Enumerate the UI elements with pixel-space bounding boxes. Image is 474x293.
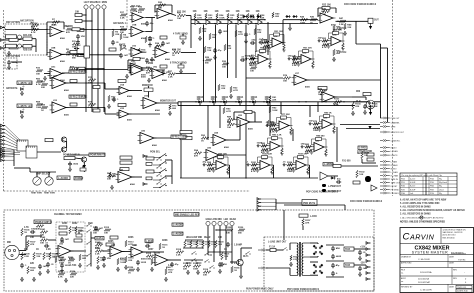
connector OUT J (380, 192, 399, 195)
svg-text:L-MAIN: L-MAIN (391, 160, 398, 163)
op-amp U2A (48, 27, 65, 37)
svg-text:100K: 100K (146, 259, 152, 261)
svg-text:DATE: DATE (449, 285, 455, 288)
jack LED HIGH (206, 221, 210, 225)
svg-text:4.7K: 4.7K (58, 276, 63, 279)
svg-text:4560: 4560 (130, 183, 136, 186)
resistor R95 (302, 219, 304, 226)
svg-text:33K: 33K (107, 179, 111, 181)
capacitor C34 (240, 58, 245, 62)
resistor RT5 (237, 13, 239, 19)
node bus326 (325, 101, 326, 102)
node y29 x47 (46, 29, 47, 30)
wire T1 primary bot (289, 268, 291, 275)
connector AC IN 1 (258, 249, 268, 251)
transistor Q8 (237, 259, 243, 265)
svg-text:R141: R141 (40, 228, 46, 231)
svg-text:2.2K: 2.2K (88, 107, 93, 109)
capacitor C42 (136, 260, 140, 265)
resistor R103 (104, 229, 111, 232)
capacitor C18 (331, 271, 335, 276)
node bus240 (239, 19, 240, 20)
resistor R123 (333, 165, 341, 168)
wire bb sw to level (91, 237, 95, 239)
wire fuse (270, 249, 283, 251)
svg-text:4560: 4560 (141, 257, 147, 260)
resistor R90 (202, 240, 204, 248)
wire fan 1 (5, 126, 20, 141)
svg-text:100K: 100K (313, 130, 319, 132)
wire VR tops (30, 171, 56, 173)
svg-text:PAD: PAD (88, 222, 93, 225)
svg-text:4560: 4560 (140, 57, 146, 60)
svg-text:U9b: U9b (153, 66, 158, 68)
svg-text:R112: R112 (104, 227, 110, 229)
svg-text:R-MAIN: R-MAIN (391, 164, 398, 167)
wire x270 drop (269, 102, 271, 137)
connector P2 pin 8 (1, 150, 6, 153)
ground R173 (116, 267, 120, 271)
node bb2 (102, 250, 103, 251)
wire U1 join (151, 18, 153, 32)
ground D2 (20, 114, 24, 118)
wire U15 in (104, 108, 106, 115)
resistor R140 (199, 27, 201, 34)
svg-text:CARVIN: CARVIN (403, 232, 435, 243)
resistor R36 (333, 49, 335, 56)
svg-text:ASSY: ASSY (401, 277, 407, 280)
resistor R71 (27, 240, 29, 248)
switch SW1 (156, 157, 161, 160)
node mid (210, 254, 211, 255)
transistor QT2 (206, 20, 210, 25)
node bb1 (90, 250, 91, 251)
diode DB1 (197, 100, 202, 103)
wire jack bus2 (82, 20, 92, 22)
svg-text:47K: 47K (66, 31, 70, 34)
svg-text:15K: 15K (283, 81, 287, 83)
label box L AUDIO 5 (172, 232, 183, 235)
switch SW14 (209, 265, 214, 268)
svg-text:15K: 15K (207, 50, 211, 52)
svg-text:MON: MON (102, 2, 108, 4)
wire R2B join (32, 45, 36, 47)
wire fan 7 (5, 148, 20, 151)
wire in bus (25, 236, 27, 251)
svg-text:10K: 10K (40, 243, 44, 245)
jack LED LOW (212, 221, 216, 225)
diode DT5 (292, 15, 297, 18)
wire drop x220 (219, 106, 221, 128)
resistor R177 (226, 229, 233, 232)
svg-text:F1 2A: F1 2A (269, 245, 276, 248)
diode D13 (318, 250, 324, 256)
wire sw bus2 (171, 160, 173, 184)
resistor R10b (70, 67, 77, 70)
node R34 (344, 21, 345, 22)
svg-text:1K: 1K (41, 110, 44, 112)
svg-text:Rly: Rly (439, 193, 442, 195)
svg-text:4560: 4560 (166, 266, 172, 269)
capacitor C9 (250, 57, 255, 61)
svg-text:U100: U100 (218, 159, 224, 161)
svg-text:FX RET: FX RET (391, 186, 399, 188)
svg-text:47K: 47K (168, 271, 172, 274)
svg-text:PWR MUTE: PWR MUTE (303, 203, 316, 205)
svg-text:33K: 33K (100, 260, 104, 262)
node DB5 (249, 101, 250, 102)
wire top bus join (190, 20, 192, 24)
node bus253 (252, 101, 253, 102)
node drop220 (219, 105, 220, 106)
resistor R85 (97, 256, 99, 264)
svg-text:10K: 10K (215, 11, 220, 13)
svg-text:10/25: 10/25 (245, 55, 251, 57)
resistor R145 (254, 28, 256, 35)
op-amp U17 (292, 75, 310, 85)
wire elbow h48 (381, 47, 388, 49)
op-amp U35 (129, 247, 146, 257)
op-amp U11 (129, 65, 146, 75)
svg-text:R206: R206 (128, 237, 134, 239)
svg-text:15K: 15K (264, 42, 268, 44)
wire jack MON down (103, 9, 105, 112)
connector P4 pin 3 (257, 205, 262, 208)
node T7 (257, 19, 258, 20)
potentiometer P1a (18, 35, 22, 39)
wire reg out 2 (354, 264, 366, 266)
ground C44 (148, 43, 152, 47)
channel filter dashed box (4, 210, 374, 291)
svg-text:LED: LED (224, 219, 229, 221)
resistor R143 (224, 44, 226, 51)
svg-text:33K: 33K (120, 32, 124, 34)
node jack LEFT y29 (85, 29, 86, 30)
svg-text:no.: no. (401, 272, 404, 274)
svg-text:10K: 10K (250, 71, 254, 73)
svg-text:POWER: POWER (75, 178, 84, 180)
potentiometer VR5 (80, 166, 86, 172)
svg-text:100K: 100K (120, 262, 126, 264)
node x246 y178 (245, 177, 246, 178)
wire mid bus y101.5 (178, 101, 381, 103)
svg-text:4560: 4560 (120, 257, 126, 260)
capacitor C22 (30, 230, 35, 234)
wire U4 fb right (335, 8, 337, 13)
jack J6 output (368, 18, 373, 26)
svg-text:R51 10K: R51 10K (274, 31, 283, 33)
resistor R47 fb (118, 104, 126, 107)
wire U26 out (154, 137, 171, 139)
wire feed psu drop (344, 205, 346, 210)
fuse F1 (270, 248, 276, 251)
connector PGM OUT (380, 117, 400, 120)
DSP option 2 dashed box (5, 58, 17, 69)
switch SW13 (86, 223, 91, 226)
wire XLR IN out2 (19, 254, 26, 256)
svg-text:8-chnl: 8-chnl (410, 186, 416, 188)
wire U9 out (181, 52, 196, 54)
ground XLR arrow (369, 112, 372, 115)
svg-text:47K: 47K (138, 11, 142, 14)
node v92 y83 (91, 82, 92, 83)
svg-text:22K: 22K (257, 32, 261, 34)
wire U4 down (387, 48, 389, 122)
wire U11 out (154, 69, 165, 71)
svg-text:R207: R207 (148, 249, 154, 251)
svg-text:10/25: 10/25 (257, 142, 263, 144)
svg-text:R32 10K: R32 10K (322, 5, 331, 7)
connector P4 pin 4 (257, 209, 262, 212)
wire sw col (90, 232, 92, 266)
switch lever 3 (160, 169, 166, 173)
resistor R5A (130, 8, 137, 11)
svg-text:10K: 10K (226, 11, 231, 13)
ground comb (229, 94, 233, 98)
svg-text:D2-D4225A: D2-D4225A (418, 278, 429, 281)
svg-text:U2C: U2C (51, 66, 56, 68)
resistor R45 (88, 103, 96, 106)
connector PSU pin 1 (366, 242, 371, 245)
wire U2B out (80, 54, 121, 56)
transistor QT1 (195, 20, 199, 25)
svg-text:10K: 10K (227, 48, 231, 50)
op-amp U27 (116, 172, 135, 183)
svg-text:FAX 487-8160: FAX 487-8160 (443, 236, 455, 239)
svg-text:4 PATCH: 4 PATCH (337, 27, 347, 30)
wire bridge2 top (310, 261, 318, 263)
connector PSU pin 6 (366, 272, 371, 275)
ground R121 (351, 111, 355, 115)
svg-text:L+AUDIO: L+AUDIO (173, 233, 183, 236)
op-amp U25 (204, 150, 222, 161)
jack J2 LEFT (84, 5, 88, 9)
wire bb join2 (216, 229, 226, 231)
capacitor C12 (44, 244, 49, 248)
resistor R2B (23, 45, 32, 48)
connector OUT A (380, 160, 398, 163)
node v98 y107 (97, 107, 98, 108)
svg-text:22K: 22K (115, 34, 119, 36)
connector P2 pin 1 (1, 124, 6, 127)
resistor R84 (95, 250, 103, 253)
LED D1 (21, 86, 25, 91)
op-amp U15 (117, 110, 132, 118)
capacitor C6b (161, 70, 165, 75)
resistor R176 (208, 240, 210, 248)
wire U2C in (44, 73, 50, 75)
switch pole 5a (159, 187, 160, 188)
node v86 y83 (85, 82, 86, 83)
ground reg2 (358, 272, 362, 276)
wire bottom feed long (153, 251, 155, 253)
svg-text:22K: 22K (128, 260, 132, 262)
op-amp U2C (48, 69, 65, 79)
XLR pin 3 (370, 106, 372, 108)
svg-text:R133: R133 (334, 99, 340, 101)
resistor R102 (93, 229, 100, 232)
resistor R79 (69, 226, 71, 234)
resistor R66 (367, 158, 374, 161)
resistor R170 (55, 256, 57, 263)
svg-text:R80 1K: R80 1K (324, 113, 332, 115)
switch lever 5 (160, 184, 166, 188)
ground C21 (38, 271, 42, 275)
svg-text:AUX: AUX (96, 1, 101, 4)
svg-text:4560: 4560 (165, 58, 171, 61)
label box L AUDIO 3 (57, 176, 70, 180)
box REVERB (6, 35, 17, 39)
regulator VR7 (344, 247, 354, 251)
wire mid bus lower (178, 105, 355, 107)
svg-text:R101: R101 (251, 162, 257, 164)
wire R30b gnd (289, 24, 291, 27)
wire U1C fb left (127, 60, 129, 70)
resistor R3 (31, 24, 39, 27)
op-amp U26 (138, 133, 157, 144)
wire U24 link (226, 139, 240, 141)
pin S2-2 (28, 146, 30, 148)
svg-text:R104: R104 (287, 161, 293, 164)
resistor R6b (77, 28, 84, 31)
node T1 (194, 19, 195, 20)
transistor QT7 (258, 20, 262, 25)
svg-text:10K: 10K (359, 174, 363, 176)
svg-text:R126: R126 (128, 267, 134, 269)
op-amp U34 (108, 247, 125, 257)
wire x281 drop (280, 102, 282, 115)
svg-text:1K: 1K (36, 249, 39, 251)
pin S2-3 (30, 146, 32, 148)
connector AUX L (380, 150, 398, 153)
ground U33 (60, 269, 64, 273)
node jack1 (85, 14, 86, 15)
wire U2C out (62, 72, 72, 74)
wire VR feed (29, 168, 31, 172)
diode D16 (312, 269, 318, 275)
resistor R27 (146, 69, 154, 72)
svg-text:TAPE IN: TAPE IN (391, 178, 399, 181)
wire fan 8 (5, 151, 20, 152)
resistor R87 (184, 240, 186, 248)
wire caps rail mid (326, 260, 344, 262)
node T2 (205, 19, 206, 20)
resistor R19 fb (133, 58, 140, 61)
switch pole 2a (159, 164, 160, 165)
resistor R8 (66, 51, 73, 54)
ground midleft (107, 104, 111, 108)
svg-text:APPROVED: APPROVED (401, 262, 412, 265)
ground R85 (96, 265, 100, 269)
svg-text:22K: 22K (70, 277, 74, 279)
svg-text:47K: 47K (194, 155, 198, 158)
resistor R76 (40, 239, 48, 242)
resistor R171 (58, 273, 65, 276)
svg-text:OUT: OUT (374, 20, 379, 22)
svg-text:MID ENABLE LED REV: MID ENABLE LED REV (175, 213, 200, 216)
potentiometer VR3 (33, 177, 41, 185)
node jack MON y69 (103, 69, 104, 70)
label box L AUDIO 4 (172, 223, 183, 226)
svg-text:MIC: MIC (7, 242, 11, 244)
wire U23 fb l (233, 112, 235, 120)
connector P2 pin 4 (1, 135, 6, 138)
IC DIP switch S1 (17, 140, 28, 151)
op-amp U10 (129, 48, 145, 57)
connector P2 pin 6 (1, 143, 6, 146)
svg-text:POWER AMP IN: POWER AMP IN (63, 154, 80, 157)
switch pole 1b (165, 155, 166, 156)
wire pot to amp (148, 92, 150, 98)
svg-text:47K: 47K (146, 72, 150, 75)
ground C42 (136, 267, 140, 271)
resistor R10 (36, 69, 43, 72)
svg-text:U103: U103 (262, 159, 268, 161)
wire S2 out (37, 151, 61, 153)
svg-text:10K: 10K (237, 99, 242, 101)
resistor R164 (218, 84, 220, 91)
resistor R106 (125, 256, 127, 263)
svg-text:RADIO: RADIO (391, 146, 398, 149)
svg-text:POWER AMP IN: POWER AMP IN (35, 221, 52, 224)
wire Q8 up (240, 248, 242, 259)
node DB6 (263, 101, 264, 102)
resistor R96 (290, 255, 292, 261)
pin S1-3 (21, 140, 23, 142)
wire bot chain (155, 251, 164, 253)
svg-text:7/5/95 5:11: 7/5/95 5:11 (457, 287, 466, 289)
wire y69 crossing (79, 69, 128, 71)
switch SW5 (86, 229, 91, 232)
resistor R10c (78, 67, 85, 70)
ground R36 (332, 57, 336, 61)
wire DB4 drop (239, 102, 241, 106)
capacitor C4a (111, 40, 115, 45)
wire U13 out (66, 107, 105, 109)
resistor R55 (194, 152, 202, 155)
pin S2-5 (34, 146, 36, 148)
wire LED LOW down (213, 226, 215, 252)
wire VR3 top (36, 172, 38, 177)
resistor R41 (41, 83, 48, 86)
svg-text:U106: U106 (298, 159, 304, 161)
svg-text:FX1 600: FX1 600 (342, 161, 351, 163)
svg-text:R130: R130 (238, 227, 244, 229)
resistor R104 (110, 236, 118, 239)
svg-text:1. ALL GROUNDS ARE: 1. ALL GROUNDS ARE (400, 216, 422, 219)
resistor R44 (88, 79, 96, 82)
node jack2 (91, 20, 92, 21)
svg-text:100K: 100K (123, 37, 129, 39)
svg-text:R129: R129 (226, 227, 232, 229)
ground U9b (147, 78, 151, 82)
resistor R59 (107, 175, 115, 178)
wire XLR feed2 (365, 97, 367, 100)
resistor R46 fb (118, 80, 126, 83)
svg-text:L-PAD: L-PAD (310, 215, 317, 218)
resistor R82 (68, 259, 75, 262)
diode DB4 (237, 100, 242, 103)
svg-text:15K: 15K (224, 256, 228, 258)
capacitor C6 (161, 41, 165, 46)
node T3 (216, 19, 217, 20)
ground R30b (288, 26, 292, 30)
wire y54 stub (60, 53, 84, 55)
wire U4 fb top (318, 7, 336, 9)
resistor R80 (75, 226, 77, 234)
svg-text:22K: 22K (30, 263, 35, 265)
label box L PAD 2 (145, 239, 153, 242)
